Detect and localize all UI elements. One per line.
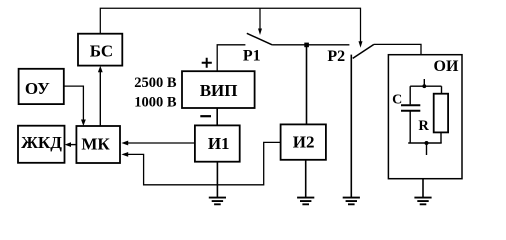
wire И1 to ground [216, 162, 218, 198]
svg-text:ЖКД: ЖКД [21, 133, 62, 152]
wire internal stub at top node [423, 79, 425, 86]
block ОИ enclosure [388, 55, 462, 179]
wire ВИП minus terminal to И1 [216, 108, 218, 125]
wire internal bottom node [408, 142, 442, 144]
wire И2 to ground [305, 160, 307, 198]
wire И1 to МК with left arrow [121, 141, 194, 146]
block И1 [195, 125, 240, 161]
wire МК to БС with up arrow [98, 66, 103, 126]
svg-text:И2: И2 [293, 133, 315, 152]
node internal bottom junction dot [425, 141, 429, 145]
ground for ОИ [414, 198, 431, 205]
svg-text:C: C [392, 92, 402, 107]
ground for И1 [209, 198, 226, 205]
svg-text:Р1: Р1 [243, 48, 261, 65]
wire resistor to bottom node [440, 132, 442, 143]
label plus sign [202, 58, 212, 68]
wire МК to ЖКД with left arrow [65, 142, 77, 147]
capacitor C plates [401, 105, 420, 111]
svg-text:И1: И1 [208, 134, 230, 153]
block ОУ [19, 69, 64, 104]
svg-text:ОИ: ОИ [434, 58, 459, 75]
svg-text:ОУ: ОУ [25, 79, 50, 98]
svg-text:Р2: Р2 [327, 48, 345, 65]
wire top node to capacitor [409, 86, 411, 104]
wire top bus from БС to Р2 drop [100, 8, 360, 42]
node internal top junction dot [422, 84, 426, 88]
block БС [78, 34, 122, 66]
label minus sign [200, 115, 211, 117]
svg-text:2500 В: 2500 В [134, 75, 177, 91]
ground for Р2 contact [343, 198, 360, 205]
svg-text:МК: МК [81, 135, 110, 154]
wire И2 to МК long path with left arrow [121, 142, 280, 184]
block ЖКД [18, 126, 65, 163]
switch Р1 blade [247, 33, 272, 45]
wire control arrow onto Р2 blade [359, 41, 363, 48]
wire bottom stub [426, 143, 428, 155]
block МК [76, 126, 120, 163]
wire internal top node [410, 85, 441, 87]
wire top node to resistor [441, 86, 443, 94]
ground for И2 [297, 198, 314, 205]
block ВИП [182, 71, 255, 108]
wire grounded contact line of Р2 [350, 55, 352, 198]
svg-text:ВИП: ВИП [200, 81, 238, 100]
wire ОУ to МК with down arrow [64, 86, 86, 126]
node junction dot on Р1-Р2 wire [304, 43, 309, 48]
wire ОИ enclosure to ground [422, 179, 424, 198]
wire Р2 pivot to ОИ box top [374, 44, 421, 54]
switch Р2 blade [353, 44, 374, 58]
wire control arrow onto Р1 blade [258, 8, 262, 35]
wire capacitor to bottom node [409, 111, 411, 143]
wire ВИП plus terminal to Р1 left contact [217, 45, 245, 71]
wire Р1 pivot to Р2 left contact [272, 44, 349, 46]
svg-text:R: R [418, 118, 429, 134]
block И2 [281, 124, 326, 159]
svg-text:БС: БС [90, 42, 113, 61]
svg-text:1000 В: 1000 В [134, 94, 177, 110]
wire junction down to И2 [306, 45, 308, 125]
resistor R body [434, 94, 448, 133]
